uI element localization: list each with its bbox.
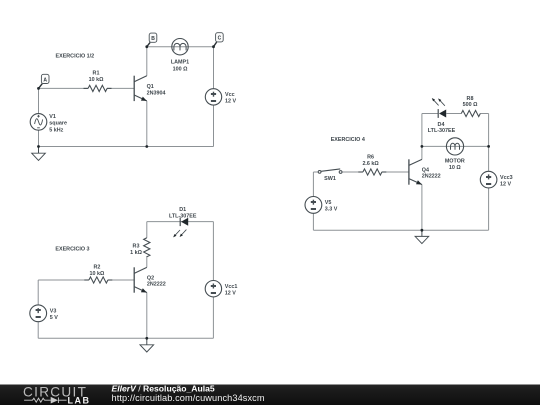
- LED D1: [169, 207, 197, 238]
- LED D4: [428, 98, 456, 134]
- transistor Q4: [409, 159, 441, 184]
- svg-text:A: A: [43, 77, 47, 83]
- svg-text:R1: R1: [93, 71, 100, 77]
- motor MOTOR: [445, 138, 465, 171]
- wire Vcc1-bottom-lead: [212, 297, 214, 338]
- svg-text:5 V: 5 V: [50, 315, 58, 321]
- vsource V1 (square): [30, 114, 67, 134]
- svg-text:C: C: [218, 36, 222, 42]
- svg-text:1 kΩ: 1 kΩ: [130, 250, 142, 256]
- svg-text:Vcc1: Vcc1: [225, 284, 238, 290]
- node B: [145, 33, 156, 48]
- wire SW1-to-R6: [342, 171, 363, 173]
- transistor Q1: [134, 76, 165, 101]
- wire V5-top-lead: [312, 172, 314, 197]
- svg-text:R3: R3: [133, 243, 140, 249]
- wire V5-bottom-lead: [312, 213, 314, 230]
- svg-text:R2: R2: [93, 264, 100, 270]
- svg-text:2N2222: 2N2222: [147, 282, 166, 288]
- resistor R2: [84, 264, 112, 283]
- vsource Vcc: [205, 89, 236, 105]
- wire Q4-emitter-down: [421, 184, 423, 230]
- wire R3-top-to-rail: [146, 222, 148, 238]
- vsource V3: [30, 305, 58, 322]
- svg-text:12 V: 12 V: [225, 99, 236, 105]
- svg-text:LTL-307EE: LTL-307EE: [428, 128, 456, 134]
- transistor Q2: [134, 267, 166, 292]
- wire R6-to-Q4-base: [382, 171, 409, 173]
- svg-text:LAB: LAB: [68, 396, 91, 405]
- svg-text:2N2222: 2N2222: [422, 174, 441, 180]
- lamp LAMP1: [171, 39, 189, 73]
- wire Q1-emitter-down: [146, 101, 148, 147]
- wire motor row: [422, 145, 489, 147]
- svg-text:Q2: Q2: [147, 275, 154, 281]
- svg-text:12 V: 12 V: [500, 181, 511, 187]
- node A: [37, 74, 49, 90]
- svg-text:5 kHz: 5 kHz: [49, 127, 63, 133]
- wire LED-to-R8: [446, 113, 461, 115]
- node C: [212, 33, 223, 48]
- svg-text:2.6 kΩ: 2.6 kΩ: [362, 161, 379, 167]
- svg-text:V5: V5: [325, 200, 332, 206]
- vsource V5: [305, 197, 338, 214]
- svg-text:V3: V3: [50, 309, 57, 315]
- wire V3-bottom-lead: [37, 322, 39, 339]
- wire V3-to-R2 (base row): [38, 279, 89, 281]
- wire V1-to-ground-junction: [38, 130, 40, 146]
- svg-text:Q4: Q4: [422, 167, 429, 173]
- wire V5-corner-to-SW1: [313, 171, 318, 173]
- svg-text:EXERCICIO 3: EXERCICIO 3: [55, 246, 89, 252]
- svg-text:LAMP1: LAMP1: [171, 60, 189, 66]
- svg-text:2N3904: 2N3904: [147, 90, 166, 96]
- svg-text:10 kΩ: 10 kΩ: [89, 271, 104, 277]
- svg-text:http://circuitlab.com/cuwunch3: http://circuitlab.com/cuwunch34sxcm: [112, 393, 265, 403]
- junction dot V1-ground: [37, 145, 40, 148]
- ground c3: [415, 230, 429, 243]
- svg-text:Vcc3: Vcc3: [500, 175, 513, 181]
- svg-text:Vcc: Vcc: [225, 92, 235, 98]
- wire Q2-collector-to-R3: [146, 256, 148, 267]
- wire bottom rail c2: [38, 337, 213, 339]
- svg-text:Q1: Q1: [147, 84, 154, 90]
- vsource Vcc3: [480, 171, 512, 188]
- svg-text:MOTOR: MOTOR: [445, 159, 465, 165]
- wire top rail through lamp: [147, 46, 214, 48]
- wire C-down-to-Vcc: [213, 47, 215, 89]
- wire R8-to-right-rail: [480, 113, 488, 115]
- junction dot motor-right-rail: [487, 145, 490, 148]
- resistor R6: [358, 154, 386, 175]
- wire Vcc-to-bottom-rail: [213, 105, 215, 146]
- vsource Vcc1: [205, 281, 237, 297]
- svg-text:LTL-307EE: LTL-307EE: [169, 214, 197, 220]
- wire LED row left: [422, 113, 438, 115]
- logo squiggle wire-resistor-diode: [24, 397, 67, 403]
- wire Vcc1-top-lead: [212, 222, 214, 281]
- wire A-to-R1 (base row left): [39, 87, 89, 89]
- junction dot Q2-emitter-rail: [145, 337, 148, 340]
- switch SW1: [318, 169, 342, 182]
- svg-text:12 V: 12 V: [225, 290, 236, 296]
- svg-text:500 Ω: 500 Ω: [463, 102, 478, 108]
- ground c1: [32, 147, 46, 161]
- svg-text:D1: D1: [179, 207, 186, 213]
- svg-text:SW1: SW1: [324, 176, 336, 182]
- junction dot Q1-emitter-rail: [145, 145, 148, 148]
- svg-text:B: B: [151, 36, 155, 42]
- wire A-down-to-V1: [38, 88, 40, 113]
- svg-text:100 Ω: 100 Ω: [173, 66, 188, 72]
- wire bottom rail c1: [39, 146, 214, 148]
- svg-text:10 Ω: 10 Ω: [449, 165, 461, 171]
- wire right-rail-top: [488, 114, 490, 172]
- resistor R8: [461, 96, 480, 117]
- svg-text:R6: R6: [367, 154, 374, 160]
- svg-text:10 kΩ: 10 kΩ: [89, 77, 104, 83]
- wire R1-to-Q1-base: [107, 87, 134, 89]
- wire Q2-emitter-down: [146, 292, 148, 338]
- svg-text:V1: V1: [49, 114, 56, 120]
- wire V3-top-lead: [37, 280, 39, 305]
- svg-text:R8: R8: [467, 96, 474, 102]
- svg-text:EXERCICIO 1/2: EXERCICIO 1/2: [56, 53, 95, 59]
- ground c2: [140, 338, 154, 352]
- wire collector-junction-up-to-LED-row: [421, 114, 423, 147]
- resistor R1: [84, 71, 112, 92]
- junction dot collector-motor-row: [421, 145, 424, 148]
- svg-text:EXERCICIO 4: EXERCICIO 4: [331, 137, 365, 143]
- junction dot emitter-bottom-rail: [421, 229, 424, 232]
- wire Q1-collector-up to node B: [146, 47, 148, 76]
- wire bottom rail c3: [313, 229, 488, 231]
- svg-text:square: square: [49, 121, 67, 127]
- resistor R3 (vertical): [130, 238, 150, 257]
- svg-text:3.3 V: 3.3 V: [325, 207, 338, 213]
- wire Vcc3-bottom-lead: [488, 188, 490, 230]
- wire Q4-collector-up: [421, 146, 423, 159]
- wire top rail c2 through D1: [147, 221, 214, 223]
- wire R2-to-Q2-base: [108, 279, 134, 281]
